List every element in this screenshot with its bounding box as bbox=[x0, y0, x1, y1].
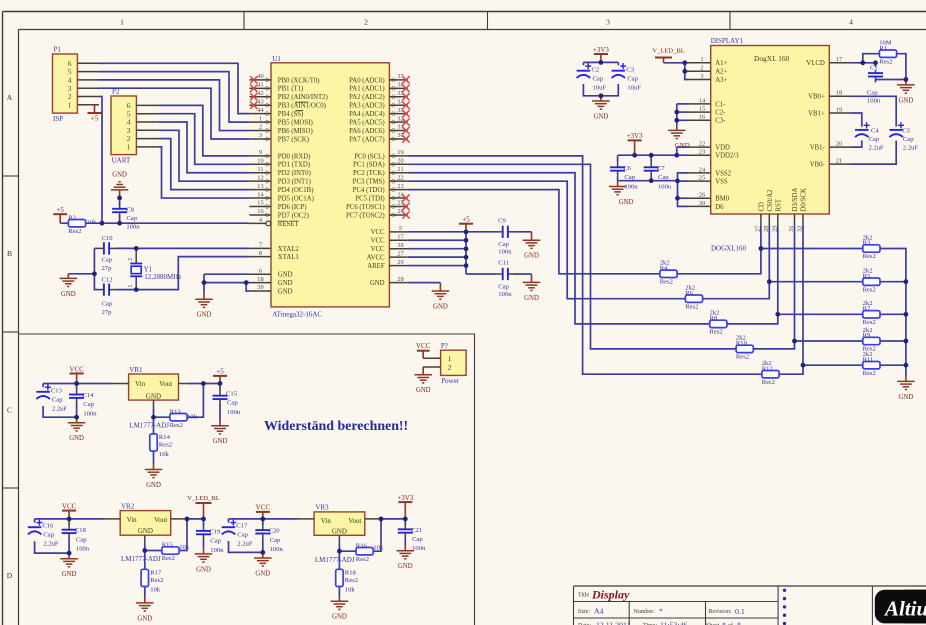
connector P2 bbox=[111, 96, 136, 155]
wire bbox=[408, 156, 803, 374]
svg-text:41: 41 bbox=[257, 82, 263, 89]
svg-text:PD7 (OC2): PD7 (OC2) bbox=[278, 212, 309, 219]
ground bbox=[211, 421, 229, 445]
wire bbox=[228, 519, 230, 523]
capacitor C18 bbox=[62, 523, 77, 539]
power +3V3 at C2 bbox=[593, 46, 610, 63]
resistor R15 bbox=[162, 542, 179, 563]
svg-text:C12: C12 bbox=[102, 277, 113, 284]
svg-text:VR2: VR2 bbox=[121, 502, 135, 510]
svg-text:13: 13 bbox=[257, 183, 263, 190]
junction bbox=[201, 517, 206, 522]
pin XTAL1 bbox=[249, 250, 298, 261]
svg-text:VCC: VCC bbox=[416, 342, 431, 350]
no-connect bbox=[402, 102, 409, 109]
junction bbox=[464, 238, 469, 243]
pin PA2 bbox=[349, 90, 408, 101]
op-amp U1 ATmega32-16AC bbox=[271, 63, 389, 307]
Altium logo bbox=[875, 590, 926, 624]
svg-text:PC7 (TOSC2): PC7 (TOSC2) bbox=[346, 212, 385, 219]
wire bbox=[408, 248, 466, 250]
svg-text:PA1 (ADC1): PA1 (ADC1) bbox=[349, 86, 384, 93]
pin D0/SCK bbox=[797, 188, 808, 232]
svg-text:VB1-: VB1- bbox=[810, 145, 826, 152]
svg-text:Res2: Res2 bbox=[863, 253, 876, 260]
junction bbox=[674, 153, 679, 158]
svg-text:VSS: VSS bbox=[715, 179, 728, 186]
wire bbox=[204, 274, 249, 282]
svg-text:Cap: Cap bbox=[903, 136, 914, 143]
svg-text:R17: R17 bbox=[150, 570, 162, 577]
pin PB2 bbox=[249, 90, 327, 101]
svg-text:D3/SDA: D3/SDA bbox=[792, 188, 799, 212]
pin RESET bbox=[249, 217, 299, 228]
junction bbox=[904, 279, 909, 284]
resistor R18 bbox=[336, 569, 358, 593]
svg-text:Vin: Vin bbox=[127, 516, 138, 524]
power +5 at R2 bbox=[53, 206, 67, 223]
pin VLCD bbox=[806, 56, 851, 67]
pin GND 39 bbox=[249, 284, 292, 295]
svg-text:B: B bbox=[7, 249, 12, 258]
no-connect bbox=[250, 85, 257, 92]
svg-text:D: D bbox=[7, 571, 13, 580]
wire bbox=[676, 147, 678, 155]
resistor R8 bbox=[710, 310, 727, 336]
svg-text:28: 28 bbox=[397, 276, 403, 283]
wire bbox=[465, 232, 467, 274]
pin VDD bbox=[689, 141, 731, 152]
svg-text:5: 5 bbox=[399, 225, 402, 232]
svg-text:VDD2/3: VDD2/3 bbox=[715, 153, 739, 160]
wire bbox=[158, 105, 249, 155]
svg-text:LM1777-ADJ: LM1777-ADJ bbox=[315, 556, 355, 564]
svg-text:R11: R11 bbox=[863, 356, 874, 363]
junction bbox=[873, 60, 878, 65]
overline PB3 AIN1 bbox=[295, 101, 308, 103]
svg-text:19: 19 bbox=[397, 149, 403, 156]
svg-text:39: 39 bbox=[257, 284, 263, 291]
wire bbox=[618, 154, 689, 156]
svg-text:22: 22 bbox=[397, 174, 403, 181]
wire bbox=[203, 283, 205, 293]
wire bbox=[905, 365, 907, 376]
svg-text:PC4 (TDO): PC4 (TDO) bbox=[353, 187, 385, 194]
zone tick rows bbox=[3, 176, 19, 488]
junction bbox=[792, 339, 797, 344]
wire bbox=[408, 181, 770, 299]
wire bbox=[650, 155, 652, 161]
resistor R11 bbox=[863, 351, 880, 377]
junction bbox=[599, 60, 604, 65]
svg-text:Res2: Res2 bbox=[863, 370, 876, 377]
svg-text:PA6 (ADC6): PA6 (ADC6) bbox=[349, 128, 384, 135]
capacitor C10 bbox=[98, 242, 116, 254]
junction bbox=[632, 153, 637, 158]
power V_LED_BL at VR2 out bbox=[187, 495, 220, 519]
pin A1+ bbox=[689, 56, 728, 67]
svg-text:PD6 (ICP): PD6 (ICP) bbox=[278, 204, 307, 211]
power +5 at P1 bbox=[88, 105, 102, 123]
svg-text:C15: C15 bbox=[226, 391, 238, 398]
svg-text:ISP: ISP bbox=[53, 115, 63, 123]
svg-text:C16: C16 bbox=[42, 523, 54, 530]
pin XTAL2 bbox=[249, 242, 299, 253]
wire bbox=[203, 540, 205, 549]
pin PA1 bbox=[349, 82, 408, 93]
svg-text:27: 27 bbox=[754, 225, 761, 232]
svg-text:20: 20 bbox=[397, 158, 403, 165]
pin AREF 29 bbox=[367, 259, 408, 270]
svg-text:GND: GND bbox=[112, 172, 127, 179]
capacitor C12 bbox=[98, 283, 116, 295]
wire bbox=[514, 273, 532, 275]
svg-text:100n: 100n bbox=[412, 545, 426, 552]
capacitor C11 bbox=[496, 268, 514, 280]
pin VSS2 bbox=[689, 166, 732, 177]
wire bbox=[99, 88, 249, 139]
svg-text:Cap: Cap bbox=[76, 536, 87, 543]
pin CS0/A2 bbox=[763, 189, 774, 232]
wire bbox=[650, 177, 652, 181]
capacitor C19 bbox=[196, 525, 211, 541]
wire bbox=[677, 103, 689, 105]
ground bbox=[523, 274, 541, 302]
svg-text:Res2: Res2 bbox=[863, 286, 876, 293]
svg-text:V_LED_BL: V_LED_BL bbox=[187, 495, 220, 502]
svg-text:Cap: Cap bbox=[237, 532, 248, 539]
svg-text:XTAL1: XTAL1 bbox=[278, 254, 299, 261]
svg-text:2.2uF: 2.2uF bbox=[237, 541, 253, 548]
junction bbox=[904, 339, 909, 344]
svg-text:PA4 (ADC4): PA4 (ADC4) bbox=[349, 111, 384, 118]
svg-text:100n: 100n bbox=[210, 547, 224, 554]
resistor R14 bbox=[150, 434, 172, 458]
svg-text:R13: R13 bbox=[170, 408, 182, 415]
svg-text:1: 1 bbox=[127, 285, 134, 288]
svg-text:0.1: 0.1 bbox=[735, 607, 745, 616]
svg-text:GND: GND bbox=[416, 387, 431, 394]
pin GND 6 bbox=[249, 267, 292, 278]
pin C3- bbox=[689, 114, 727, 125]
pin VB0+ bbox=[808, 90, 851, 101]
svg-text:R7: R7 bbox=[863, 305, 871, 312]
resistor R3 bbox=[863, 234, 880, 260]
wire bbox=[339, 519, 381, 551]
svg-text:25: 25 bbox=[699, 175, 705, 182]
svg-text:ATmega32-16AC: ATmega32-16AC bbox=[272, 311, 322, 319]
svg-text:2: 2 bbox=[700, 65, 703, 72]
svg-text:AVCC: AVCC bbox=[367, 255, 385, 262]
pin VCC 5 bbox=[371, 225, 408, 236]
wire bbox=[99, 80, 249, 131]
wire bbox=[94, 248, 97, 289]
junction bbox=[100, 221, 105, 226]
pin PB5 bbox=[249, 115, 312, 126]
svg-text:VCC: VCC bbox=[371, 246, 385, 253]
svg-text:Cap: Cap bbox=[658, 174, 669, 181]
svg-text:Res2: Res2 bbox=[736, 354, 749, 361]
crystal Y1 bbox=[127, 248, 181, 289]
svg-text:Res2: Res2 bbox=[162, 555, 175, 562]
svg-text:Cap: Cap bbox=[102, 301, 113, 308]
pin PA5 bbox=[349, 115, 408, 126]
svg-text:100n: 100n bbox=[867, 97, 881, 104]
svg-text:AREF: AREF bbox=[367, 263, 385, 270]
ground bbox=[897, 80, 915, 105]
wire bbox=[219, 404, 221, 421]
wire bbox=[43, 406, 77, 417]
junction bbox=[117, 221, 122, 226]
pin PC6 bbox=[346, 200, 408, 211]
pin PD4 bbox=[249, 183, 313, 194]
svg-text:Vin: Vin bbox=[135, 380, 146, 388]
svg-text:PB2 (AIN0/INT2): PB2 (AIN0/INT2) bbox=[278, 94, 328, 101]
junction bbox=[682, 60, 687, 65]
svg-text:Cap: Cap bbox=[227, 400, 238, 407]
revision dots bbox=[783, 589, 786, 625]
svg-text:+5: +5 bbox=[216, 368, 224, 376]
svg-text:BM0: BM0 bbox=[715, 196, 730, 203]
svg-text:R12: R12 bbox=[762, 365, 773, 372]
wire bbox=[158, 122, 249, 173]
pin PA7 bbox=[349, 132, 408, 143]
svg-text:Revision:: Revision: bbox=[709, 609, 732, 615]
svg-text:C18: C18 bbox=[75, 527, 87, 534]
svg-text:2: 2 bbox=[448, 363, 452, 372]
capacitor C6 bbox=[610, 161, 625, 177]
wire bbox=[381, 518, 405, 520]
wire bbox=[851, 113, 862, 127]
svg-text:16: 16 bbox=[257, 208, 263, 215]
wire bbox=[466, 273, 497, 275]
wire bbox=[76, 403, 78, 417]
wire bbox=[153, 417, 155, 465]
svg-text:100n: 100n bbox=[624, 184, 638, 191]
svg-text:PC2 (TCK): PC2 (TCK) bbox=[353, 170, 385, 177]
pin VCC 17 bbox=[371, 233, 408, 244]
wire bbox=[761, 249, 906, 366]
no-connect bbox=[250, 102, 257, 109]
svg-text:R1: R1 bbox=[879, 45, 887, 52]
svg-text:C3: C3 bbox=[626, 66, 634, 73]
junction bbox=[218, 381, 223, 386]
junction bbox=[904, 363, 909, 368]
svg-text:PD1 (TXD): PD1 (TXD) bbox=[278, 162, 310, 169]
svg-text:R16: R16 bbox=[356, 542, 368, 549]
svg-text:PB3 (AIN1/OC0): PB3 (AIN1/OC0) bbox=[278, 103, 326, 110]
wire bbox=[203, 519, 205, 526]
svg-text:Res2: Res2 bbox=[863, 319, 876, 326]
wire bbox=[408, 282, 441, 284]
svg-text:4: 4 bbox=[849, 18, 853, 27]
svg-text:10k: 10k bbox=[87, 219, 98, 226]
svg-text:C7: C7 bbox=[657, 165, 665, 172]
wire bbox=[677, 119, 689, 121]
wire bbox=[769, 281, 906, 283]
wire bbox=[408, 239, 466, 241]
wire bbox=[617, 62, 619, 65]
capacitor C2 bbox=[577, 63, 592, 78]
svg-text:PB7 (SCK): PB7 (SCK) bbox=[278, 136, 309, 143]
svg-text:14: 14 bbox=[699, 97, 706, 104]
svg-text:Display: Display bbox=[591, 587, 630, 601]
wire bbox=[685, 63, 689, 80]
svg-text:GND: GND bbox=[370, 280, 385, 287]
wire bbox=[116, 257, 250, 290]
wire bbox=[43, 383, 112, 385]
capacitor C21 bbox=[398, 523, 413, 539]
svg-text:11: 11 bbox=[257, 166, 263, 173]
svg-text:LM1777-ADJ: LM1777-ADJ bbox=[129, 422, 169, 430]
pin CD bbox=[754, 202, 765, 232]
svg-text:C10: C10 bbox=[102, 235, 114, 242]
svg-text:100n: 100n bbox=[498, 248, 512, 255]
power V_LED_BL at display bbox=[652, 48, 685, 63]
svg-text:10k: 10k bbox=[150, 587, 161, 594]
junction bbox=[682, 69, 687, 74]
svg-text:1: 1 bbox=[700, 56, 703, 63]
pin C2- bbox=[689, 106, 727, 117]
junction bbox=[801, 363, 806, 368]
svg-text:100n: 100n bbox=[658, 184, 672, 191]
svg-text:VB1+: VB1+ bbox=[808, 110, 825, 117]
pin PD3 bbox=[249, 174, 310, 185]
svg-text:100n: 100n bbox=[126, 224, 140, 231]
no-connect bbox=[402, 127, 409, 134]
wire bbox=[145, 519, 187, 551]
svg-text:GND: GND bbox=[69, 435, 84, 442]
title block texts bbox=[578, 587, 745, 625]
capacitor C4 bbox=[855, 122, 870, 137]
regulator VR3 LM1117-ADJ bbox=[298, 504, 382, 565]
junction bbox=[74, 415, 79, 420]
wire bbox=[119, 198, 121, 206]
wire bbox=[875, 63, 877, 67]
junction bbox=[260, 517, 265, 522]
svg-text:R3: R3 bbox=[863, 240, 871, 247]
svg-text:R5: R5 bbox=[863, 273, 871, 280]
svg-text:26: 26 bbox=[699, 192, 705, 199]
wire bbox=[404, 519, 406, 525]
wire bbox=[582, 62, 584, 65]
wire bbox=[408, 256, 466, 258]
svg-text:Res2: Res2 bbox=[170, 422, 183, 429]
resistor R17 bbox=[141, 569, 163, 593]
overline PB4 SS bbox=[295, 110, 303, 112]
junction bbox=[403, 517, 408, 522]
junction bbox=[92, 271, 97, 276]
svg-text:PC1 (SDA): PC1 (SDA) bbox=[353, 162, 385, 169]
svg-text:Res2: Res2 bbox=[150, 577, 163, 584]
svg-text:17: 17 bbox=[397, 233, 404, 240]
ground bbox=[145, 465, 163, 489]
svg-text:UART: UART bbox=[112, 157, 131, 165]
wire bbox=[338, 551, 340, 596]
svg-text:Cap: Cap bbox=[593, 75, 604, 82]
wire bbox=[338, 543, 340, 551]
svg-text:Res2: Res2 bbox=[762, 379, 775, 386]
svg-text:VCC: VCC bbox=[371, 229, 385, 236]
junction bbox=[134, 287, 139, 292]
wire bbox=[187, 383, 220, 385]
svg-text:Res2: Res2 bbox=[710, 329, 723, 336]
wire bbox=[677, 111, 689, 113]
junction bbox=[244, 280, 249, 285]
power VCC at VR3 bbox=[256, 504, 271, 519]
wire bbox=[617, 155, 619, 161]
svg-text:D6: D6 bbox=[715, 204, 724, 211]
no-connect bbox=[402, 93, 409, 100]
pin PC5 bbox=[355, 191, 407, 202]
pin D3/SDA bbox=[788, 188, 799, 232]
svg-text:44: 44 bbox=[257, 107, 264, 114]
power +3V3 at VR3 out bbox=[397, 494, 414, 519]
no-connect bbox=[402, 203, 409, 210]
svg-text:GND: GND bbox=[594, 113, 609, 120]
svg-text:*: * bbox=[659, 607, 663, 616]
junction bbox=[599, 93, 604, 98]
svg-text:VSS2: VSS2 bbox=[715, 170, 731, 177]
svg-text:R2: R2 bbox=[68, 214, 76, 221]
pin PC7 bbox=[346, 208, 408, 219]
svg-text:21: 21 bbox=[397, 166, 403, 173]
svg-text:Cap: Cap bbox=[867, 89, 878, 96]
wire bbox=[408, 173, 778, 324]
svg-text:PD2 (INT0): PD2 (INT0) bbox=[278, 170, 311, 177]
svg-text:1: 1 bbox=[448, 354, 452, 363]
svg-text:C4: C4 bbox=[871, 127, 879, 134]
resistor R13 bbox=[170, 408, 187, 429]
wire bbox=[678, 181, 689, 207]
svg-text:100n: 100n bbox=[227, 409, 241, 416]
svg-text:Res2: Res2 bbox=[68, 228, 81, 235]
svg-text:GND: GND bbox=[899, 394, 914, 401]
wire bbox=[863, 54, 906, 80]
no-connect bbox=[402, 76, 409, 83]
svg-text:3: 3 bbox=[606, 18, 610, 27]
pin PA3 bbox=[349, 98, 408, 109]
svg-text:Cap: Cap bbox=[627, 75, 638, 82]
svg-text:Vout: Vout bbox=[154, 516, 167, 524]
svg-text:A2+: A2+ bbox=[715, 69, 727, 76]
capacitor C14 bbox=[69, 388, 84, 404]
wire bbox=[35, 518, 104, 520]
svg-text:RESET: RESET bbox=[278, 221, 300, 228]
capacitor C1 bbox=[868, 70, 883, 79]
svg-text:C: C bbox=[7, 406, 12, 415]
svg-text:Widerständ berechnen!!: Widerständ berechnen!! bbox=[264, 419, 408, 434]
svg-text:17: 17 bbox=[836, 56, 843, 63]
svg-text:+3V3: +3V3 bbox=[627, 132, 644, 140]
svg-text:GND: GND bbox=[196, 566, 211, 573]
svg-text:40: 40 bbox=[257, 73, 263, 80]
pin PD7 bbox=[249, 208, 309, 219]
svg-text:PA3 (ADC3): PA3 (ADC3) bbox=[349, 103, 384, 110]
wire bbox=[851, 96, 896, 126]
svg-text:12: 12 bbox=[257, 174, 263, 181]
no-connect bbox=[250, 93, 257, 100]
pin PA6 bbox=[349, 124, 408, 135]
svg-text:GND: GND bbox=[255, 570, 270, 577]
svg-text:10k: 10k bbox=[179, 544, 190, 551]
svg-text:PC3 (TMS): PC3 (TMS) bbox=[353, 179, 385, 186]
svg-text:GND: GND bbox=[213, 438, 228, 445]
wire bbox=[158, 139, 249, 190]
resistor R12 bbox=[762, 360, 779, 386]
wire bbox=[617, 177, 619, 181]
svg-text:C2-: C2- bbox=[715, 110, 726, 117]
